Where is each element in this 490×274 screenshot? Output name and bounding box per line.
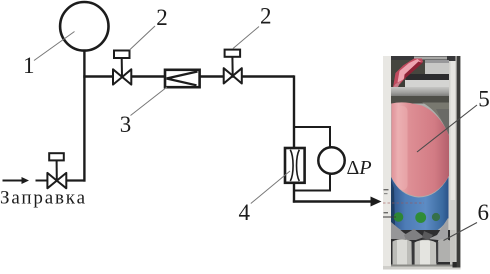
wire vertical from bottle	[83, 51, 85, 182]
svg-text:ΔP: ΔP	[347, 157, 372, 179]
struts above cans	[391, 222, 414, 239]
green dot 2	[415, 212, 426, 223]
leader 3	[131, 87, 168, 116]
inlet arrow	[3, 180, 24, 182]
top-right silver collar	[425, 60, 449, 74]
svg-text:4: 4	[238, 200, 250, 225]
filter 3	[165, 70, 200, 87]
faint red line at fill level	[383, 202, 424, 204]
svg-text:1: 1	[23, 53, 35, 78]
dP gauge circle	[318, 147, 344, 173]
green dot 3	[432, 213, 440, 221]
dark dot bottom right	[453, 262, 459, 268]
mid metallic band	[391, 87, 449, 97]
photo right border line	[457, 56, 461, 268]
top-left dark zone	[391, 60, 425, 81]
green dot 1	[394, 212, 404, 222]
dark band above shoulder	[391, 96, 449, 104]
wire horizontal main line	[83, 75, 294, 77]
leader 6	[444, 223, 478, 241]
silver band	[405, 80, 449, 88]
ribbed dark band	[406, 74, 449, 80]
can 3	[438, 239, 450, 262]
top dark rim	[391, 56, 456, 61]
wire inlet to valve	[36, 180, 49, 182]
svg-text:2: 2	[156, 5, 168, 30]
arrow into tank	[371, 197, 382, 207]
pink highlight	[397, 106, 408, 190]
flow meter 4 (venturi)	[285, 148, 305, 183]
gas bottle circle 1	[60, 2, 108, 51]
valve Заправка bowtie	[47, 153, 66, 188]
wire dP branch top	[294, 127, 330, 149]
photo background frame	[383, 56, 461, 270]
can 1	[393, 239, 413, 265]
blue section	[391, 177, 449, 236]
left strip small marks	[384, 189, 389, 190]
dark equipment bay	[391, 230, 450, 266]
can 2	[415, 240, 437, 266]
cylinder base	[391, 56, 456, 268]
wire valve to vertical	[66, 179, 86, 181]
bottom strip	[383, 266, 461, 270]
leader 2 first	[130, 26, 156, 50]
valve 2 first	[113, 51, 131, 85]
svg-text:2: 2	[260, 4, 272, 29]
wire bottom line to tank	[293, 200, 372, 202]
svg-text:5: 5	[478, 86, 490, 111]
svg-text:3: 3	[120, 112, 132, 137]
leader 2 second	[233, 27, 259, 49]
shadows between cans	[412, 243, 415, 266]
red flag blob	[393, 59, 423, 88]
leader 1	[34, 32, 75, 61]
right bright column	[449, 56, 457, 266]
leader 5	[417, 105, 477, 152]
leader 4	[251, 171, 290, 204]
pointer line to green dot	[383, 216, 396, 218]
blue dark left edge	[391, 180, 395, 226]
svg-text:6: 6	[478, 200, 490, 225]
wire dP branch bottom	[294, 173, 330, 191]
pink tank body 5	[392, 102, 450, 196]
valve 2 second	[224, 50, 242, 84]
wire vertical right line	[293, 75, 295, 202]
gray wedge above pink shoulder	[422, 103, 449, 136]
svg-text:Заправка: Заправка	[0, 188, 86, 209]
